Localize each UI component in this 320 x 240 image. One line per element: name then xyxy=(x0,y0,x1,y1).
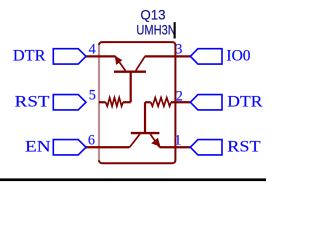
svg-text:2: 2 xyxy=(176,88,183,104)
svg-text:3: 3 xyxy=(175,42,182,58)
svg-text:RST: RST xyxy=(15,93,50,111)
svg-text:DTR: DTR xyxy=(13,47,46,65)
svg-text:4: 4 xyxy=(89,42,96,58)
svg-text:IO0: IO0 xyxy=(226,47,250,65)
svg-text:RST: RST xyxy=(227,137,261,155)
svg-text:DTR: DTR xyxy=(227,93,262,111)
svg-text:1: 1 xyxy=(174,132,181,148)
svg-text:6: 6 xyxy=(88,132,95,148)
svg-text:Q13: Q13 xyxy=(140,6,165,22)
svg-text:EN: EN xyxy=(25,137,51,155)
svg-text:5: 5 xyxy=(89,88,96,104)
svg-text:UMH3N: UMH3N xyxy=(136,21,175,37)
